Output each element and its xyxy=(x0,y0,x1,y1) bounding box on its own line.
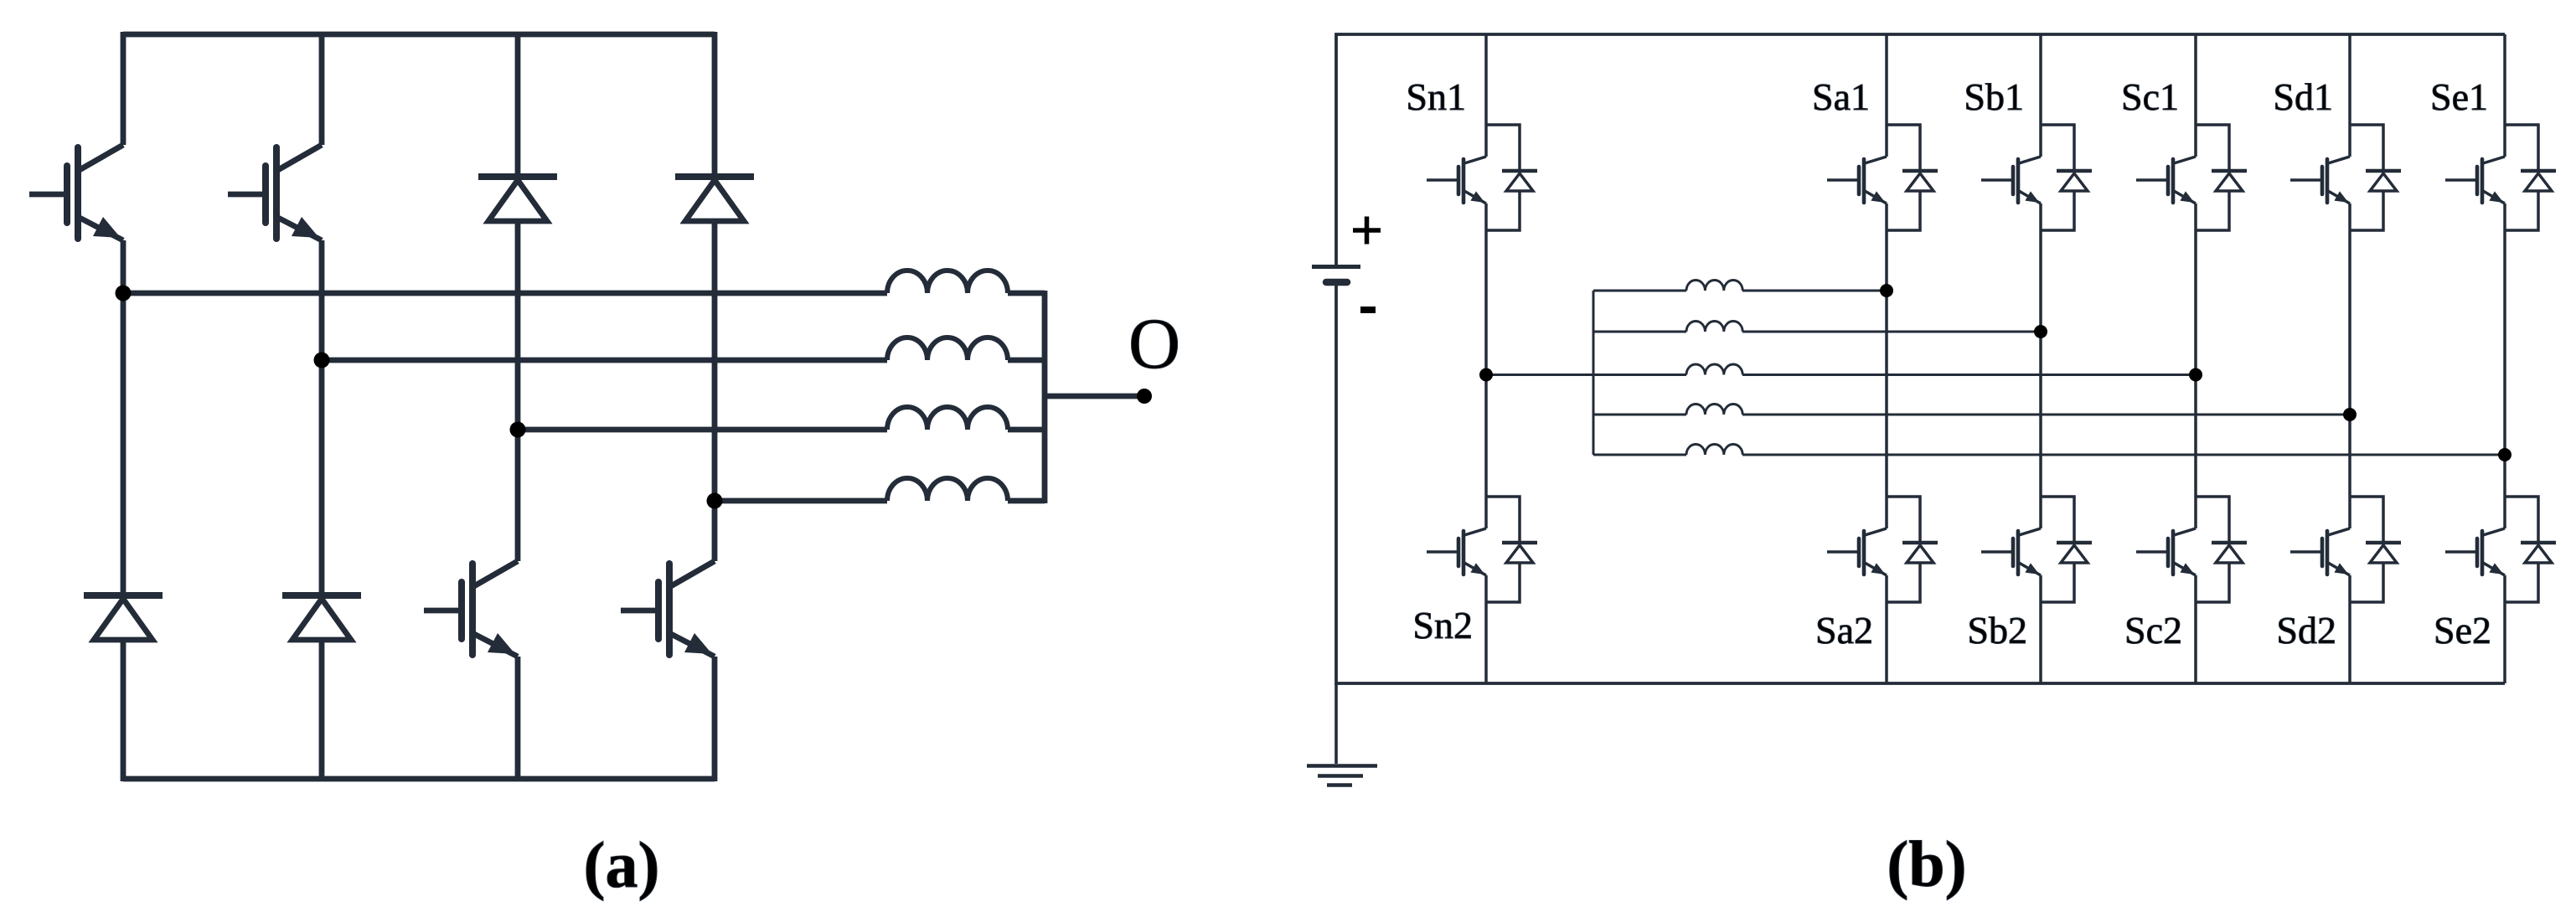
wire: output line 2 right segment xyxy=(1008,358,1045,363)
svg-text:(b): (b) xyxy=(1887,827,1966,900)
svg-text:Se2: Se2 xyxy=(2434,609,2491,652)
node O terminal dot xyxy=(1137,389,1152,404)
diode D4 (lower diode, branch 2) xyxy=(282,592,361,599)
wire: phase leg Sa vertical xyxy=(1885,34,1888,683)
switch Sa2 (IGBT with antiparallel diode, lower) xyxy=(1887,497,1920,541)
svg-text:Sn2: Sn2 xyxy=(1412,604,1473,647)
inductor L3 xyxy=(887,407,1008,430)
diode D2 (upper diode, branch 4) xyxy=(675,173,754,180)
svg-text:Sb2: Sb2 xyxy=(1967,609,2027,652)
wire: coupled line to leg Se xyxy=(1593,454,1686,456)
wire: phase leg Sd vertical xyxy=(2348,34,2351,683)
inductor Ld (coupling inductor, phase d) xyxy=(1686,404,1742,415)
svg-text:Se1: Se1 xyxy=(2430,75,2488,118)
node: junction dot on branch 3 xyxy=(510,422,526,438)
node: junction dot on branch 2 xyxy=(314,353,330,368)
battery V1 short plate xyxy=(1326,279,1347,286)
inductor Lb (coupling inductor, phase b) xyxy=(1686,321,1742,332)
transistor Q2 (upper IGBT, branch 2) xyxy=(228,192,266,198)
switch Se1 (IGBT with antiparallel diode, upper) xyxy=(2505,125,2538,169)
wire: branch 4 vertical segments xyxy=(712,32,718,781)
node: connection dot on leg Se xyxy=(2498,448,2511,461)
inductor La (coupling inductor, phase a) xyxy=(1686,281,1742,291)
transistor Q4 (lower IGBT, branch 4) xyxy=(621,608,658,614)
switch Sb1 (IGBT with antiparallel diode, upper) xyxy=(2041,125,2074,169)
switch Sd1 (IGBT with antiparallel diode, upper) xyxy=(2350,125,2383,169)
node: connection dot on leg Sd xyxy=(2343,408,2357,421)
switch Sc2 (IGBT with antiparallel diode, lower) xyxy=(2196,497,2229,541)
wire: output line 3 from branch 3 xyxy=(518,427,887,433)
wire: coupled line right segment to leg Se xyxy=(1742,454,2505,456)
svg-text:O: O xyxy=(1128,303,1180,384)
wire: branch 1 vertical segments xyxy=(121,32,126,781)
wire: output line 4 right segment xyxy=(1008,498,1045,504)
wire: output line 2 from branch 2 xyxy=(322,358,887,363)
diode D1 (upper diode, branch 3) xyxy=(478,173,557,180)
wire: coupled line right segment to leg Sa xyxy=(1742,290,1887,292)
transistor Q1 (upper IGBT, branch 1) xyxy=(29,192,67,198)
node: connection dot on leg Sn xyxy=(1479,368,1493,382)
wire: coupled line to leg Sb xyxy=(1593,331,1686,333)
switch Sa1 (IGBT with antiparallel diode, upper) xyxy=(1887,125,1920,169)
wire: output collector bus xyxy=(1042,291,1048,503)
switch Sd2 (IGBT with antiparallel diode, lower) xyxy=(2350,497,2383,541)
switch Sn1 (IGBT with antiparallel diode, upper) xyxy=(1486,125,1520,169)
wire: output line 1 from branch 1 xyxy=(123,291,887,296)
wire: stub to output node O xyxy=(1045,394,1144,399)
wire: coupled line right segment to leg Sd xyxy=(1742,414,2350,416)
svg-text:Sd2: Sd2 xyxy=(2276,609,2336,652)
switch Sn2 (IGBT with antiparallel diode, lower) xyxy=(1486,497,1520,541)
svg-text:Sb1: Sb1 xyxy=(1964,75,2024,118)
wire: coupled line to leg Sa xyxy=(1593,290,1686,292)
wire: bottom DC bus of converter (a) xyxy=(123,776,715,782)
wire: output line 4 from branch 4 xyxy=(715,498,887,504)
wire: positive DC rail and top bus of inverter (b) xyxy=(1336,34,2505,265)
wire: branch 2 vertical segments xyxy=(319,32,325,781)
wire: negative DC rail and bottom bus of inverter (b) xyxy=(1336,284,2505,683)
switch Sc1 (IGBT with antiparallel diode, upper) xyxy=(2196,125,2229,169)
wire: phase leg Sb vertical xyxy=(2039,34,2042,683)
wire: phase leg Sn vertical xyxy=(1484,34,1488,683)
wire: coupled line right segment to leg Sc xyxy=(1742,373,2196,376)
wire: coupling-inductor left bus xyxy=(1593,291,1595,455)
wire: phase leg Sc vertical xyxy=(2194,34,2197,683)
svg-text:Sd1: Sd1 xyxy=(2273,75,2333,118)
wire: branch 3 vertical segments xyxy=(515,32,521,781)
battery V1 (DC source) long plate xyxy=(1312,265,1360,269)
node: connection dot on leg Sa xyxy=(1880,284,1893,297)
wire: coupled line to leg Sc xyxy=(1486,373,1686,376)
wire: output line 1 right segment xyxy=(1008,291,1045,296)
inductor L1 xyxy=(887,270,1008,293)
wire: coupled line right segment to leg Sb xyxy=(1742,331,2041,333)
transistor Q3 (lower IGBT, branch 3) xyxy=(424,608,462,614)
wire: output line 3 right segment xyxy=(1008,427,1045,433)
wire: top DC bus of converter (a) xyxy=(123,32,715,38)
switch Sb2 (IGBT with antiparallel diode, lower) xyxy=(2041,497,2074,541)
label - (negative terminal) xyxy=(1360,307,1376,313)
svg-text:Sc2: Sc2 xyxy=(2124,609,2182,652)
wire: phase leg Se vertical xyxy=(2503,34,2506,683)
wire: coupled line to leg Sd xyxy=(1593,414,1686,416)
ground symbol xyxy=(1334,683,1338,764)
inductor Lc (coupling inductor, phase c) xyxy=(1686,364,1742,375)
svg-text:Sa2: Sa2 xyxy=(1815,609,1873,652)
inductor Le (coupling inductor, phase e) xyxy=(1686,445,1742,456)
switch Se2 (IGBT with antiparallel diode, lower) xyxy=(2505,497,2538,541)
inductor L4 xyxy=(887,478,1008,501)
node: connection dot on leg Sb xyxy=(2034,325,2047,338)
diode D3 (lower diode, branch 1) xyxy=(84,592,163,599)
svg-text:Sc1: Sc1 xyxy=(2121,75,2179,118)
node: connection dot on leg Sc xyxy=(2189,368,2202,382)
node: junction dot on branch 1 xyxy=(116,286,132,301)
label + (positive terminal) xyxy=(1353,217,1381,245)
svg-text:(a): (a) xyxy=(584,828,660,901)
svg-text:Sa1: Sa1 xyxy=(1812,75,1870,118)
node: junction dot on branch 4 xyxy=(707,493,723,509)
inductor L2 xyxy=(887,337,1008,360)
svg-text:Sn1: Sn1 xyxy=(1406,75,1466,118)
